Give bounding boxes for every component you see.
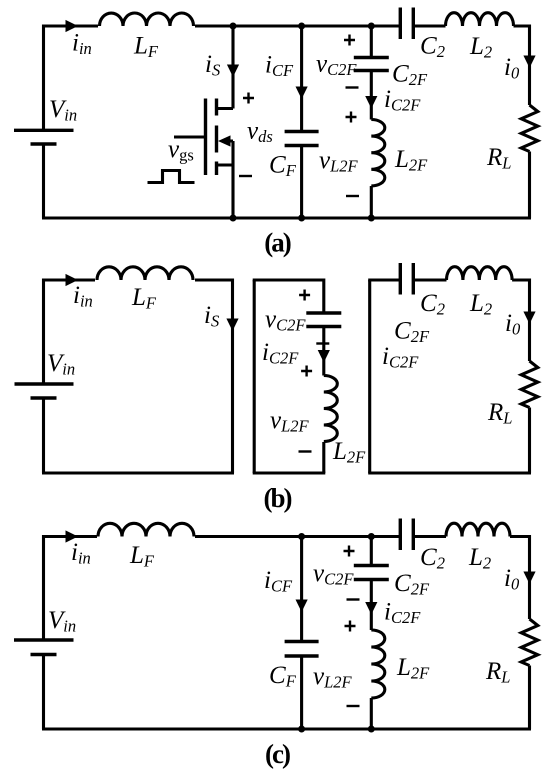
svg-text:iS: iS	[205, 51, 220, 80]
wire top-right corner C	[510, 537, 530, 620]
wire C2F-L2F link A	[370, 71, 373, 120]
svg-text:L2: L2	[469, 290, 492, 319]
wire C2 to L2 B	[413, 278, 446, 281]
svg-text:CF: CF	[269, 662, 297, 691]
i_S arrow A	[227, 65, 239, 78]
wire top-right corner A	[514, 26, 530, 105]
i_S arrow B	[226, 319, 238, 332]
resistor RL B	[521, 361, 538, 408]
label plus vL2F C	[345, 621, 356, 632]
i_0 arrow A	[523, 56, 535, 69]
label minus vL2F C	[347, 705, 360, 707]
svg-text:vL2F: vL2F	[313, 663, 353, 692]
label plus vC2F A	[344, 35, 355, 46]
i_in arrow C	[66, 530, 79, 542]
svg-text:CF: CF	[269, 152, 297, 181]
node dot C C2F-bottom	[368, 726, 375, 733]
svg-text:C2F: C2F	[394, 318, 430, 347]
i_C2F arrow B	[318, 350, 330, 363]
svg-text:RL: RL	[487, 399, 512, 428]
inductor L2 A	[446, 13, 514, 26]
node dot A drain-top	[230, 23, 237, 30]
i_CF arrow C	[296, 600, 308, 613]
capacitor C2 A	[400, 8, 413, 40]
svg-text:vL2F: vL2F	[270, 407, 310, 436]
node dot C CF-top	[298, 533, 305, 540]
wire L2F bottom A	[370, 186, 373, 218]
capacitor CF A	[285, 132, 319, 146]
wire bottom rail B2	[253, 471, 326, 474]
svg-text:vC2F: vC2F	[313, 560, 354, 589]
capacitor C2F B	[306, 313, 341, 327]
label minus vC2F B	[316, 342, 329, 344]
wire left-bottom C	[42, 655, 45, 730]
wire top rail C	[195, 535, 399, 538]
wire C2F branch upper A	[370, 26, 373, 56]
svg-text:iC2F: iC2F	[262, 339, 299, 368]
svg-text:iC2F: iC2F	[382, 343, 419, 372]
wire right-bottom B3	[528, 408, 531, 474]
wire CF branch upper C	[300, 537, 303, 641]
gate pulse waveform	[148, 171, 195, 183]
svg-text:RL: RL	[485, 658, 510, 687]
wire CF branch upper A	[300, 26, 303, 130]
svg-text:Vin: Vin	[47, 350, 75, 379]
svg-text:(a): (a)	[264, 228, 290, 258]
svg-text:LF: LF	[131, 284, 157, 313]
inductor L2 C	[446, 523, 510, 536]
inductor L2 B	[447, 267, 513, 280]
transistor Q1 mosfet	[174, 99, 233, 219]
svg-text:C2: C2	[420, 33, 445, 62]
svg-text:LF: LF	[129, 542, 155, 571]
inductor L2F A	[371, 120, 385, 186]
inductor LF B	[97, 267, 193, 280]
wire drain A	[231, 26, 234, 109]
svg-text:iCF: iCF	[265, 52, 294, 81]
svg-text:iin: iin	[73, 282, 93, 311]
svg-text:iC2F: iC2F	[384, 599, 421, 628]
battery Vin A long plate	[14, 129, 74, 132]
svg-text:L2: L2	[469, 33, 492, 62]
wire C2 to L2 C	[413, 535, 446, 538]
svg-text:iin: iin	[72, 30, 92, 59]
battery Vin C short plate	[31, 653, 57, 656]
node dot A CF-top	[298, 23, 305, 30]
i_in arrow A	[66, 20, 79, 32]
node dot A CF-bottom	[298, 215, 305, 222]
svg-text:iS: iS	[204, 302, 219, 331]
wire top rail A	[195, 24, 399, 27]
node dot C C2F-top	[368, 533, 375, 540]
svg-text:vC2F: vC2F	[265, 306, 306, 335]
wire right-bottom A	[528, 152, 531, 219]
inductor L2F C	[371, 630, 385, 698]
label plus vL2F B	[301, 366, 312, 377]
wire bottom rail A	[42, 216, 531, 219]
wire C2F branch upper C	[370, 537, 373, 565]
wire CF branch lower C	[300, 658, 303, 730]
label minus vL2F B	[299, 450, 312, 452]
wire top-left rail B1	[44, 280, 96, 384]
node dot A C2F-top	[368, 23, 375, 30]
wire top-right corner B1	[195, 280, 233, 473]
inductor L2F B	[324, 376, 338, 442]
capacitor CF C	[285, 642, 319, 657]
node dot A C2F-bottom	[368, 215, 375, 222]
i_CF arrow A	[296, 87, 308, 100]
wire C2F-L2F link C	[370, 580, 373, 631]
svg-text:(c): (c)	[265, 739, 290, 769]
svg-text:i0: i0	[504, 565, 520, 594]
battery Vin B short plate	[31, 396, 57, 399]
capacitor C2 B	[400, 263, 413, 295]
svg-text:iin: iin	[71, 539, 91, 568]
svg-text:C2F: C2F	[394, 570, 430, 599]
inductor LF A	[100, 13, 194, 26]
svg-text:iCF: iCF	[264, 567, 293, 596]
wire C2F-L2F link B	[322, 327, 325, 376]
resistor RL A	[521, 105, 538, 152]
wire CF branch lower A	[300, 147, 303, 218]
svg-text:RL: RL	[486, 144, 511, 173]
svg-text:vL2F: vL2F	[319, 147, 359, 176]
resistor RL C	[521, 619, 538, 666]
label plus vds A	[243, 93, 254, 104]
wire top-right corner B3	[512, 280, 529, 361]
svg-text:iC2F: iC2F	[384, 86, 421, 115]
label plus vC2F C	[344, 546, 355, 557]
i_C2F arrow C	[365, 602, 377, 615]
wire top rail B3	[368, 278, 399, 281]
wire top rail B2	[253, 280, 324, 312]
capacitor C2F C	[354, 566, 389, 580]
svg-text:(b): (b)	[264, 483, 292, 513]
svg-text:i0: i0	[504, 54, 520, 83]
wire L2F bottom C	[370, 698, 373, 729]
svg-text:Vin: Vin	[48, 607, 76, 636]
svg-text:L2F: L2F	[332, 438, 366, 467]
label minus vC2F A	[346, 86, 359, 88]
label minus vds A	[239, 175, 252, 177]
svg-text:i0: i0	[505, 310, 521, 339]
capacitor C2 C	[400, 519, 413, 551]
wire bottom rail B1	[42, 471, 234, 474]
label minus vL2F A	[346, 195, 359, 197]
svg-text:vds: vds	[247, 118, 273, 147]
wire top-left rail C	[44, 537, 98, 641]
svg-text:C2: C2	[420, 290, 445, 319]
i_0 arrow C	[523, 572, 535, 585]
i_C2F arrow A	[365, 96, 377, 109]
svg-text:L2F: L2F	[396, 654, 430, 683]
i_0 arrow B	[523, 312, 535, 325]
node dot A drain-bottom	[230, 215, 237, 222]
svg-text:vC2F: vC2F	[316, 51, 357, 80]
battery Vin A short plate	[31, 142, 57, 145]
capacitor C2F A	[354, 58, 389, 71]
wire left-bottom A	[42, 145, 45, 218]
svg-text:LF: LF	[133, 33, 159, 62]
svg-text:C2: C2	[420, 544, 445, 573]
svg-text:L2F: L2F	[394, 146, 428, 175]
i_in arrow B	[66, 274, 79, 286]
wire left-bottom B1	[42, 398, 45, 473]
svg-text:C2F: C2F	[392, 61, 428, 90]
wire left side B2	[253, 280, 256, 473]
wire bottom rail C	[42, 727, 531, 730]
svg-text:Vin: Vin	[49, 96, 77, 125]
wire C2 to L2 A	[413, 24, 445, 27]
node dot C CF-bottom	[298, 726, 305, 733]
svg-text:vgs: vgs	[168, 136, 194, 165]
inductor LF C	[98, 523, 194, 536]
svg-text:L2: L2	[468, 544, 491, 573]
wire top-left rail	[44, 26, 99, 131]
label plus vL2F A	[346, 112, 357, 123]
wire L2F bottom B	[322, 442, 325, 473]
wire left side B3	[368, 280, 371, 473]
label minus vC2F C	[347, 598, 360, 600]
wire bottom rail B3	[368, 471, 531, 474]
wire right-bottom C	[528, 666, 531, 730]
battery Vin B long plate	[15, 382, 74, 385]
battery Vin C long plate	[14, 638, 74, 641]
label plus vC2F B	[299, 290, 310, 301]
